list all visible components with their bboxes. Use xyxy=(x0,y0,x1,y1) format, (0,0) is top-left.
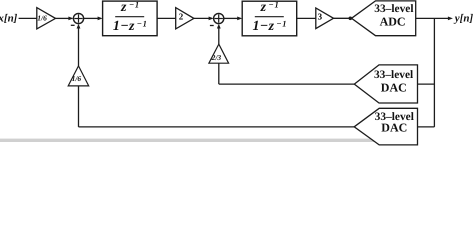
summer S2 xyxy=(214,13,224,23)
svg-text:DAC: DAC xyxy=(381,121,407,135)
H2 fraction bar xyxy=(255,16,284,18)
integrator H1 block xyxy=(103,1,158,36)
wire gain 2/3 to summer S2 xyxy=(218,27,220,45)
wire gain 1/6 feedback to summer S1 xyxy=(78,27,80,66)
wire integrator H2 to gain 3 xyxy=(297,17,316,19)
svg-text:33–level: 33–level xyxy=(374,3,413,15)
minus sign at S2 xyxy=(210,25,214,27)
wire integrator H1 to gain 2 xyxy=(157,17,176,19)
integrator H2 block xyxy=(242,1,297,36)
svg-text:x[n]: x[n] xyxy=(0,13,18,25)
gain A3 (3) xyxy=(316,8,334,29)
svg-text:1/6: 1/6 xyxy=(37,13,47,22)
wire x[n] to gain 1/6 xyxy=(19,17,37,19)
svg-text:2: 2 xyxy=(179,11,184,21)
scan artifact gray stripe xyxy=(0,139,418,142)
svg-text:DAC: DAC xyxy=(381,81,407,95)
wire stub bus to DAC2 xyxy=(418,126,435,128)
wire stub bus to DAC1 xyxy=(418,83,435,85)
wire summer S1 to integrator H1 xyxy=(84,17,100,19)
arrowhead into integrator H2 xyxy=(237,17,242,21)
wire gain 1/6 to summer S1 xyxy=(56,17,71,19)
svg-text:33–level: 33–level xyxy=(374,69,413,81)
wire ADC output to y[n] xyxy=(416,17,451,19)
node dot at ADC input xyxy=(349,17,353,21)
svg-text:ADC: ADC xyxy=(380,14,406,28)
wire summer S2 to integrator H2 xyxy=(224,17,239,19)
svg-text:3: 3 xyxy=(318,12,323,22)
wire DAC2 output left xyxy=(79,126,355,128)
summer S1 xyxy=(73,13,83,23)
wire gain 3 to ADC input node xyxy=(334,17,352,19)
arrowhead at y[n] xyxy=(448,17,453,21)
arrowhead feedback into S1 bottom xyxy=(77,24,81,29)
gain B2 (2/3) feedback upward triangle xyxy=(209,44,229,63)
DAC2 block (33-level DAC, lower) xyxy=(354,108,417,145)
minus sign at S1 xyxy=(71,24,75,26)
wire DAC1 output left xyxy=(219,83,354,85)
svg-text:1/6: 1/6 xyxy=(72,74,82,83)
arrowhead feedback into S2 bottom xyxy=(217,24,221,29)
ADC block (33-level ADC) xyxy=(352,1,416,36)
gain B1 (1/6) feedback upward triangle xyxy=(68,66,89,86)
gain A2 (2) xyxy=(176,8,194,29)
arrowhead into integrator H1 xyxy=(98,17,103,21)
arrowhead into summer S2 xyxy=(209,17,214,21)
wire gain 2 to summer S2 xyxy=(194,17,211,19)
svg-text:2/3: 2/3 xyxy=(211,53,222,62)
gain A1 (1/6) forward xyxy=(37,8,56,29)
DAC1 block (33-level DAC, upper) xyxy=(354,65,417,103)
wire vertical feedback bus xyxy=(433,18,435,127)
arrowhead into summer S1 xyxy=(68,17,73,21)
wire up into gain 1/6 feedback xyxy=(78,86,80,127)
svg-text:y[n]: y[n] xyxy=(453,13,474,25)
wire up into gain 2/3 xyxy=(218,63,220,84)
H1 fraction bar xyxy=(115,16,144,18)
